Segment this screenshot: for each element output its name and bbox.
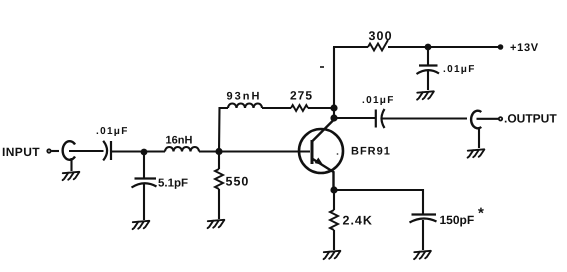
capacitor C3 .01uF (supply bypass) <box>417 66 440 75</box>
wire node F to capacitor C5 <box>334 190 423 214</box>
wire connector tail to ground <box>478 128 480 149</box>
junction node A <box>141 149 148 156</box>
junction node D (output tap) <box>330 114 337 121</box>
capacitor C2 5.1pF <box>132 179 157 188</box>
ground (input connector) <box>63 172 80 180</box>
junction node B (base node) <box>215 148 222 155</box>
svg-text:300: 300 <box>369 29 393 43</box>
collector rail wire (vertical) <box>333 47 335 120</box>
wire R1 to ground <box>218 189 220 219</box>
wire C2 to ground <box>143 184 145 220</box>
input terminal <box>47 149 50 152</box>
capacitor C4 .01uF (output coupling) <box>376 109 385 128</box>
stray mark <box>320 66 324 68</box>
wire R4 to ground <box>333 230 335 250</box>
wire R3 to +13V terminal <box>388 46 499 48</box>
junction node F (emitter) <box>330 186 337 193</box>
svg-text:5.1pF: 5.1pF <box>158 178 188 190</box>
wire C4 to output connector <box>381 117 467 119</box>
svg-text:16nH: 16nH <box>166 135 193 147</box>
resistor R1 550 <box>215 169 223 189</box>
svg-text:*: * <box>478 205 484 222</box>
ground (C5) <box>414 251 431 259</box>
junction node C (feedback/rail) <box>330 104 337 111</box>
wire node B up to feedback line <box>219 108 228 152</box>
svg-text:275: 275 <box>290 89 313 103</box>
output terminal <box>499 117 502 120</box>
svg-text:550: 550 <box>226 175 250 189</box>
svg-text:.01μF: .01μF <box>96 126 129 137</box>
resistor R3 300 <box>368 40 388 51</box>
wire C1 to node A <box>111 150 165 152</box>
+13V terminal dot <box>498 44 504 50</box>
output coax connector J2 <box>471 111 481 129</box>
inductor L1 16nH <box>165 147 199 152</box>
wire connector center to capacitor C1 <box>69 150 104 152</box>
wire node A down to capacitor C2 <box>143 152 145 178</box>
svg-text:.01μF: .01μF <box>362 95 395 106</box>
transistor Q1 BFR91 <box>299 120 343 191</box>
wire connector tail to ground <box>70 158 72 171</box>
wire node D to capacitor C4 <box>334 117 375 119</box>
ground (R1) <box>208 220 225 228</box>
ground (C3) <box>417 91 434 99</box>
input coax connector J1 <box>63 141 75 160</box>
wire input terminal to connector <box>52 150 60 152</box>
ground (C2) <box>133 221 150 229</box>
svg-text:INPUT: INPUT <box>2 145 40 159</box>
junction node E (supply bypass) <box>425 44 432 51</box>
wire C3 to ground <box>427 71 429 90</box>
resistor R2 275 <box>291 105 308 111</box>
svg-text:.01μF: .01μF <box>443 64 476 75</box>
inductor L2 93nH <box>228 104 262 109</box>
wire C5 to ground <box>422 220 424 250</box>
ground (output connector) <box>468 149 485 157</box>
capacitor C5 150pF <box>410 215 437 223</box>
top rail wire to resistor R3 <box>333 46 368 48</box>
wire connector center to output terminal <box>477 118 499 120</box>
wire R2 to collector rail node C <box>308 107 334 109</box>
ground (R4) <box>324 251 341 259</box>
svg-text:93nH: 93nH <box>227 91 262 103</box>
svg-text:2.4K: 2.4K <box>343 214 373 228</box>
wire node F down to resistor R4 <box>333 190 335 210</box>
svg-text:.OUTPUT: .OUTPUT <box>504 112 557 126</box>
svg-text:+13V: +13V <box>510 42 539 54</box>
capacitor C1 .01uF (input coupling) <box>103 141 111 161</box>
svg-text:150pF: 150pF <box>440 213 475 227</box>
wire L2 to resistor R2 <box>262 107 291 109</box>
wire node E to capacitor C3 <box>427 47 429 65</box>
wire node B to transistor base <box>219 150 310 152</box>
wire node B down to resistor R1 <box>218 152 220 170</box>
resistor R4 2.4K <box>330 210 338 230</box>
svg-text:BFR91: BFR91 <box>351 146 391 158</box>
wire L1 to node B <box>199 150 219 152</box>
